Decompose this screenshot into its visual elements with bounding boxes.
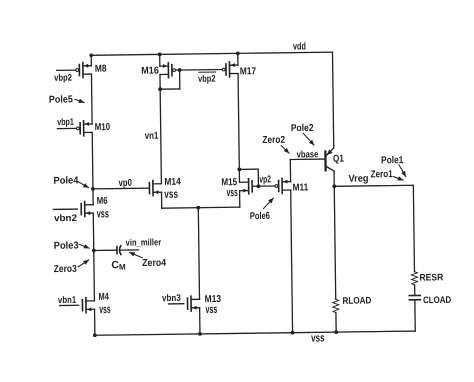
node vdd rail left corner [89, 53, 93, 57]
wire column G junction to M13 drain [198, 208, 199, 300]
wire CLOAD to vss rail [414, 300, 416, 331]
wire RLOAD to vss rail [335, 313, 337, 332]
svg-text:M14: M14 [164, 177, 181, 188]
svg-text:Pole2: Pole2 [291, 123, 314, 134]
svg-text:vss: vss [205, 304, 217, 316]
wire column A M6 source to M4 drain (node Pole3/Zero3) [93, 213, 94, 301]
capacitor CLOAD top plate [409, 294, 420, 296]
transistor M8 (PMOS) [76, 62, 92, 77]
wire M16 diode loop horizontal [160, 88, 180, 90]
svg-text:Zero1: Zero1 [371, 169, 394, 180]
svg-text:vss: vss [97, 208, 109, 220]
svg-text:vp2: vp2 [259, 174, 271, 185]
transistor M16 (PMOS, mirrored) [160, 63, 176, 78]
svg-text:Pole5: Pole5 [49, 94, 74, 105]
wire column B M14 source down [161, 192, 163, 208]
wire M6 gate (vbn2) [53, 208, 77, 210]
node vss rail M11 junction [291, 331, 295, 335]
wire M4 gate (vbn1) [60, 304, 79, 306]
node vdd/M17 junction [236, 51, 240, 55]
wire Pole5 arrow [75, 99, 84, 102]
wire M13 gate (vbn3) [169, 303, 184, 305]
wire column C M15 source down [239, 191, 241, 207]
wire Pole6 arrow [263, 198, 273, 208]
svg-text:vbp2: vbp2 [54, 73, 72, 84]
wire column C vdd to M17 source [237, 53, 239, 65]
svg-text:RLOAD: RLOAD [342, 295, 371, 306]
svg-text:M8: M8 [95, 64, 107, 75]
svg-text:Vreg: Vreg [348, 173, 368, 184]
wire Pole3 arrow [79, 244, 89, 248]
transistor M6 (NMOS) [81, 201, 93, 216]
wire vbase horizontal to Q1 base [290, 158, 324, 160]
svg-text:Zero4: Zero4 [142, 258, 167, 269]
svg-text:vbn2: vbn2 [54, 213, 77, 224]
node vss rail left junction [93, 333, 97, 337]
svg-text:vbp2: vbp2 [198, 74, 216, 85]
wire column A vdd to M8 source [90, 55, 92, 65]
svg-text:vn1: vn1 [145, 131, 159, 142]
svg-text:M17: M17 [240, 66, 257, 77]
node source line / M13 junction [196, 206, 200, 210]
wire Pole4 arrow [77, 181, 88, 188]
node CM left node on column A [92, 249, 96, 253]
wire column A M10 drain to M6 drain (node vp0) [91, 132, 94, 204]
svg-text:M4: M4 [98, 292, 109, 303]
capacitor CM left plate [116, 247, 118, 254]
wire Zero4 arrow [129, 252, 142, 258]
capacitor CLOAD bottom plate [409, 299, 420, 301]
transistor M15 (NMOS, mirrored) [240, 179, 252, 194]
svg-text:M16: M16 [141, 66, 159, 77]
svg-text:vss: vss [227, 187, 238, 199]
node vss rail M13 junction [198, 332, 202, 336]
svg-text:M11: M11 [292, 182, 308, 193]
svg-text:vbn3: vbn3 [162, 293, 181, 304]
resistor RLOAD [333, 299, 339, 312]
transistor Q1 emitter arrow [327, 149, 333, 155]
node M16 drain junction [158, 87, 162, 91]
wire Q1 emitter to vdd rail [332, 52, 333, 148]
wire vp2 tap vertical [257, 169, 259, 186]
label vbp2 overline [199, 71, 216, 73]
wire column B M16 drain to M14 drain (net vn1) [160, 74, 161, 183]
svg-text:vdd: vdd [293, 41, 306, 52]
wire M15 gate to vp2 [253, 185, 275, 187]
svg-text:M10: M10 [95, 122, 111, 133]
svg-text:vss: vss [164, 189, 178, 201]
wire M10 gate (vbp1) [57, 127, 76, 129]
svg-text:Pole6: Pole6 [250, 211, 271, 222]
wire M14/M15 source line [162, 207, 240, 208]
wire Zero3 arrow [78, 260, 89, 267]
wire column A M4 source to vss rail [94, 309, 96, 335]
wire RESR to CLOAD top plate [414, 285, 416, 296]
wire column G M13 source to vss rail [199, 308, 201, 334]
transistor M13 (NMOS) [187, 296, 199, 311]
transistor Q1 base bar [324, 152, 327, 171]
transistor M4 (NMOS) [82, 298, 94, 313]
svg-text:Zero3: Zero3 [54, 264, 78, 275]
wire M8 gate (vbp2) [57, 69, 76, 71]
wire vss bottom rail [95, 331, 415, 335]
wire Vreg node down to RLOAD [334, 186, 335, 299]
wire vp2 tap horizontal [239, 168, 258, 170]
svg-text:vin_miller: vin_miller [126, 237, 162, 248]
svg-text:Pole4: Pole4 [53, 175, 79, 186]
node vdd/M16 junction [158, 52, 162, 56]
wire node to CM left plate [94, 249, 116, 251]
svg-text:Zero2: Zero2 [262, 135, 285, 146]
wire Pole1 arrow [399, 165, 406, 177]
svg-text:vbase: vbase [296, 149, 318, 160]
wire column D vbase corner to M11 drain [289, 159, 291, 181]
wire output right drop to RESR [413, 185, 414, 271]
wire column B vdd to M16 source [159, 54, 161, 66]
node vp0 [91, 187, 95, 191]
svg-text:vbp1: vbp1 [57, 117, 74, 128]
svg-text:vss: vss [99, 304, 110, 316]
svg-text:vp0: vp0 [119, 178, 133, 189]
svg-text:Q1: Q1 [333, 154, 344, 165]
wire vdd top rail [91, 52, 332, 55]
wire CM right plate to vin_miller stub [121, 249, 139, 251]
wire column A M8 drain to M10 source [90, 74, 93, 124]
transistor Q1 collector lead [327, 167, 334, 171]
transistor Q1 emitter lead (to vdd) [327, 148, 334, 155]
capacitor CM right plate (curved) [119, 246, 121, 255]
node vss rail RLOAD junction [334, 330, 338, 334]
transistor M10 (PMOS) [76, 121, 92, 136]
wire Zero2 arrow [281, 146, 289, 154]
node M17/M15 drain junction [237, 167, 241, 171]
wire Zero1 arrow [394, 177, 403, 181]
svg-text:RESR: RESR [419, 272, 443, 283]
wire M16 diode loop vertical [179, 70, 181, 89]
node vp2 gate junction [257, 184, 261, 188]
svg-text:CLOAD: CLOAD [423, 295, 451, 306]
wire column C M17 drain to M15 drain [238, 73, 239, 182]
wire gate net vbp2bar M16 to M17 [176, 68, 223, 71]
node gate wire junction [178, 68, 182, 72]
svg-text:M6: M6 [97, 196, 108, 207]
svg-text:vss: vss [311, 332, 325, 344]
node Vreg [332, 184, 336, 188]
wire Vreg horizontal [334, 185, 413, 186]
transistor M11 (PMOS) [275, 178, 291, 193]
transistor M14 (NMOS) [149, 180, 161, 195]
resistor RESR [411, 272, 417, 285]
wire vp0 to M14 gate [93, 187, 149, 190]
svg-text:vbn1: vbn1 [58, 295, 77, 306]
wire column D M11 source to vss rail [291, 190, 293, 333]
wire Q1 collector to Vreg node [333, 171, 335, 186]
transistor M17 (PMOS) [222, 62, 238, 77]
svg-text:Pole1: Pole1 [381, 155, 404, 166]
svg-text:Pole3: Pole3 [54, 240, 79, 251]
wire Pole2 arrow [303, 133, 314, 145]
